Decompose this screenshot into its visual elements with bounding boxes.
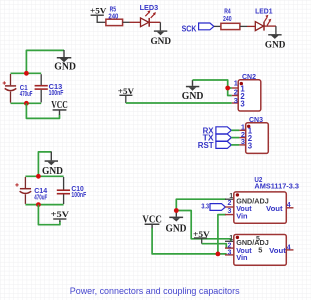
wire TX to CN3 pin2 xyxy=(231,137,239,139)
node junction bottom xyxy=(24,101,29,106)
supply +5V (CN2) xyxy=(118,86,135,103)
svg-text:100nF: 100nF xyxy=(49,88,64,97)
wire top rail (C14 C10) xyxy=(25,175,63,177)
wire GND net bottom-left xyxy=(38,152,51,176)
wire RST to CN3 pin3 xyxy=(231,144,239,146)
wire GND net top-left xyxy=(26,50,64,73)
ground (regulators) xyxy=(166,211,187,235)
wire bottom rail (C14 C10) xyxy=(25,204,63,206)
LED LED3 xyxy=(140,3,159,27)
wire RX to CN3 pin1 xyxy=(231,129,239,131)
svg-text:4: 4 xyxy=(287,244,291,251)
svg-text:VCC: VCC xyxy=(51,100,68,111)
wire R5 to LED3 xyxy=(123,21,130,23)
supply +5V (top middle) xyxy=(90,5,107,22)
capacitor C1 xyxy=(3,74,33,103)
supply +5V (regulators) xyxy=(193,229,210,244)
svg-text:LED1: LED1 xyxy=(255,7,272,16)
ground xyxy=(265,34,286,50)
node junction VCC xyxy=(216,252,221,257)
svg-text:GND: GND xyxy=(265,40,286,51)
node junction GND xyxy=(174,208,179,213)
wire +5V net bottom-left xyxy=(38,205,60,225)
svg-text:1: 1 xyxy=(229,193,233,200)
resistor R4 xyxy=(221,7,240,30)
svg-text:GND: GND xyxy=(182,91,204,102)
svg-text:470uF: 470uF xyxy=(20,89,33,98)
net label RX xyxy=(203,126,232,135)
svg-text:AMS1117-3.3: AMS1117-3.3 xyxy=(254,181,299,190)
svg-text:100nF: 100nF xyxy=(71,190,86,199)
ground xyxy=(151,30,172,46)
svg-text:+5V: +5V xyxy=(51,209,70,219)
node junction CN2 xyxy=(225,86,230,91)
svg-text:3: 3 xyxy=(240,99,245,108)
svg-text:3: 3 xyxy=(228,208,232,215)
wire R4 to LED1 xyxy=(240,25,247,27)
wire CN2 pin1 to pin2 xyxy=(228,88,232,96)
svg-text:240: 240 xyxy=(223,14,232,23)
svg-text:GND: GND xyxy=(151,36,172,47)
svg-text:1: 1 xyxy=(234,79,238,88)
svg-text:3.3: 3.3 xyxy=(201,201,209,210)
regulator U2 AMS1117-3.3 xyxy=(225,175,299,223)
ground xyxy=(54,50,76,73)
LED LED1 xyxy=(255,7,272,31)
connector CN3 xyxy=(239,115,268,153)
wire bottom rail xyxy=(11,102,42,104)
svg-text:CN3: CN3 xyxy=(249,115,263,124)
wire VCC net xyxy=(152,228,218,254)
svg-text:RST: RST xyxy=(198,141,214,150)
svg-text:+5V: +5V xyxy=(118,86,135,96)
node junction top xyxy=(24,71,29,76)
capacitor C14 xyxy=(15,177,48,204)
svg-text:3: 3 xyxy=(234,96,238,105)
svg-text:3: 3 xyxy=(248,141,253,150)
capacitor C10 xyxy=(57,177,87,204)
svg-text:Vout: Vout xyxy=(269,246,286,255)
supply VCC xyxy=(51,100,68,115)
net label RST xyxy=(198,141,232,150)
node junction bottom xyxy=(36,202,41,207)
wire VCC net xyxy=(26,103,59,118)
svg-text:2: 2 xyxy=(228,200,232,207)
svg-text:4: 4 xyxy=(287,202,291,209)
connector CN2 xyxy=(232,72,261,111)
svg-text:3: 3 xyxy=(241,137,245,146)
svg-text:3: 3 xyxy=(228,250,232,257)
svg-text:Vout: Vout xyxy=(266,204,283,213)
svg-text:240: 240 xyxy=(108,11,118,20)
supply +5V xyxy=(51,209,70,222)
svg-text:Vin: Vin xyxy=(236,212,248,221)
net label SCK xyxy=(182,23,214,34)
ground (CN2) xyxy=(182,80,204,102)
svg-text:CN2: CN2 xyxy=(242,72,256,81)
regulator U5 AMS1117-5 xyxy=(225,235,294,266)
svg-text:2: 2 xyxy=(228,242,232,249)
wire VCC to U2 top Vin xyxy=(218,215,226,254)
svg-text:SCK: SCK xyxy=(182,25,197,34)
svg-text:Power, connectors and coupling: Power, connectors and coupling capacitor… xyxy=(70,286,240,296)
svg-text:GND: GND xyxy=(54,62,76,73)
svg-text:1: 1 xyxy=(229,235,233,242)
wire SCK to R4 xyxy=(214,25,221,27)
net label 3.3 xyxy=(201,201,225,210)
wire +5V to CN2 pin3 xyxy=(126,102,232,104)
wire +5V to R5 xyxy=(97,21,106,23)
svg-text:GND: GND xyxy=(166,224,187,235)
net label TX xyxy=(203,134,232,143)
svg-text:LED3: LED3 xyxy=(140,3,159,12)
wire LED1 to gnd xyxy=(264,25,276,27)
resistor R5 xyxy=(106,5,123,26)
svg-text:+5V: +5V xyxy=(90,5,107,15)
wire VCC to bottom Vin xyxy=(218,254,226,255)
wire GND to bottom pin1 xyxy=(176,211,231,242)
node junction top xyxy=(36,174,41,179)
capacitor C13 xyxy=(35,74,64,102)
wire LED3 to gnd xyxy=(149,21,160,23)
supply VCC (regulators) xyxy=(142,215,161,229)
svg-text:5: 5 xyxy=(258,246,262,255)
svg-text:5: 5 xyxy=(256,236,260,243)
wire top rail xyxy=(11,72,42,74)
svg-text:GND: GND xyxy=(42,166,63,177)
ground xyxy=(42,152,63,178)
wire +5V to bottom Vout xyxy=(202,244,227,248)
wire GND to CN2 pin1 xyxy=(193,80,232,88)
svg-text:Vin: Vin xyxy=(236,253,248,262)
svg-text:470uF: 470uF xyxy=(34,193,47,202)
wire GND to U2 top pin1 xyxy=(176,199,226,210)
